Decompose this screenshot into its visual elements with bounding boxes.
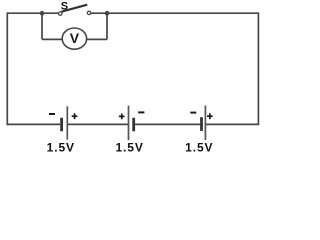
wire: voltmeter branch right vertical rise — [106, 13, 108, 39]
battery B1 positive long plate — [66, 106, 68, 139]
wire: left vertical side — [6, 12, 8, 125]
wire: bottom segment from B3 to right corner — [205, 123, 258, 125]
node B: junction dot right of switch — [105, 11, 110, 16]
wire: top-left segment from corner to switch — [7, 12, 58, 14]
battery B3 positive long plate — [204, 105, 206, 140]
switch S: lever arm (open) — [62, 5, 88, 12]
svg-text:S: S — [61, 0, 68, 12]
switch S: left terminal circle — [59, 12, 62, 15]
battery B1 minus sign — [49, 113, 55, 115]
svg-text:1.5V: 1.5V — [115, 140, 143, 154]
wire: voltmeter branch left horizontal — [42, 38, 63, 40]
wire: right vertical side — [257, 12, 259, 125]
battery B2 plus sign — [119, 114, 125, 120]
svg-text:1.5V: 1.5V — [185, 140, 213, 154]
battery B3 negative short plate — [200, 117, 203, 131]
wire: voltmeter branch left vertical drop — [41, 13, 43, 39]
svg-text:1.5V: 1.5V — [47, 140, 75, 154]
battery B1 negative short plate — [60, 118, 63, 131]
svg-text:V: V — [70, 30, 80, 46]
node A: junction dot left of switch — [40, 11, 45, 16]
wire: voltmeter branch right horizontal — [86, 38, 107, 40]
wire: bottom segment left corner to battery B1 — [7, 123, 60, 125]
wire: bottom segment between B1 and B2 — [67, 123, 128, 125]
battery B2 positive long plate — [128, 106, 130, 141]
voltmeter U1: circle body — [62, 28, 86, 49]
wire: top-right segment from switch to corner — [91, 12, 259, 14]
battery B2 negative short plate — [132, 118, 135, 132]
battery B2 minus sign — [138, 111, 144, 113]
battery B3 plus sign — [207, 113, 213, 119]
switch S: right terminal circle — [87, 11, 90, 14]
battery B1 plus sign — [72, 113, 78, 119]
battery B3 minus sign — [190, 112, 196, 114]
wire: bottom segment between B2 and B3 — [135, 123, 200, 125]
